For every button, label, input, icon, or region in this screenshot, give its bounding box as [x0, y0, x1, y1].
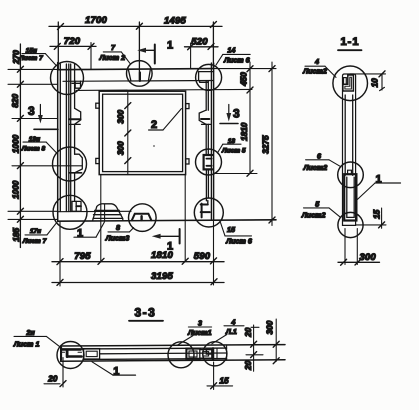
svg-text:3: 3	[28, 104, 35, 118]
svg-text:Лист 8: Лист 8	[21, 145, 46, 152]
svg-text:Лист2: Лист2	[302, 66, 327, 75]
left rib key C	[72, 201, 81, 211]
right rib inner line b	[207, 81, 209, 198]
left rib second line	[59, 64, 61, 212]
label 1 with leader	[92, 362, 136, 378]
plan bottom edge	[58, 220, 276, 221]
svg-text:15: 15	[227, 225, 236, 234]
section 3-3 title	[129, 306, 163, 321]
left rib key B	[69, 154, 82, 173]
detail circle mid-left	[53, 147, 87, 181]
label 8 sheet 3	[105, 223, 134, 243]
svg-text:300: 300	[116, 141, 126, 155]
svg-text:300: 300	[359, 252, 376, 263]
svg-text:Лист2: Лист2	[301, 211, 326, 220]
channel pair mid	[186, 349, 211, 359]
right dim 3275	[214, 62, 276, 226]
dim 520	[185, 36, 219, 69]
bar right end edge	[226, 345, 228, 360]
svg-text:1810: 1810	[239, 122, 249, 141]
bar bottom edge	[61, 360, 285, 361]
left rib inner line b	[68, 64, 70, 212]
svg-text:4: 4	[230, 317, 235, 326]
detail circle top-centre	[127, 61, 153, 87]
plan top bar bottom edge	[63, 80, 214, 83]
label 15n sheet 7	[18, 48, 56, 66]
extension line right edge	[212, 22, 214, 69]
label 4 sheet 2	[302, 57, 336, 77]
svg-text:Лист 7: Лист 7	[22, 238, 47, 245]
dim line 3195	[52, 271, 224, 285]
svg-text:520: 520	[191, 36, 208, 47]
svg-text:720: 720	[64, 36, 81, 47]
detail circle 1-1 bottom	[338, 212, 363, 237]
svg-text:Лист 5: Лист 5	[221, 148, 246, 155]
bottom edge extension right	[356, 224, 386, 226]
label 1 leader bottom-left	[74, 222, 105, 240]
detail circle top-right	[196, 64, 222, 90]
svg-text:Лист2: Лист2	[303, 163, 328, 172]
svg-text:3-3: 3-3	[134, 306, 156, 320]
right dim chain 20/20	[243, 325, 263, 371]
label 15 sheet 6	[221, 223, 253, 246]
opening centre dim line	[116, 91, 131, 174]
right rib key A	[199, 110, 211, 124]
label 14 sheet 6	[216, 45, 251, 65]
bar mid line	[100, 352, 227, 355]
label 4 sheet L1	[212, 317, 244, 343]
bar top edge	[61, 345, 285, 346]
section marker 3 left	[28, 104, 58, 130]
opening tab left lower	[96, 158, 99, 163]
svg-text:7: 7	[111, 43, 116, 52]
detail circle 3-3 right	[203, 342, 227, 366]
shear key hump left	[93, 204, 123, 221]
speck inside opening	[153, 145, 155, 147]
svg-text:20: 20	[243, 327, 253, 338]
dim 720	[50, 36, 96, 70]
svg-text:1495: 1495	[164, 15, 186, 26]
section 1-1 top hook profile	[343, 75, 354, 91]
svg-text:270: 270	[11, 50, 21, 65]
section 1-1 bottom edge	[343, 224, 356, 226]
left rib right edge	[74, 64, 76, 201]
opening inner rect	[103, 94, 183, 171]
svg-text:1700: 1700	[85, 15, 107, 26]
svg-text:300: 300	[265, 320, 275, 334]
detail circle 3-3 left	[57, 342, 84, 369]
svg-text:3: 3	[198, 319, 202, 328]
svg-text:Лист 6: Лист 6	[223, 55, 251, 64]
svg-text:Лист3: Лист3	[105, 234, 130, 243]
svg-text:2: 2	[151, 119, 157, 131]
detail circle 3-3 mid	[168, 342, 194, 368]
svg-text:795: 795	[74, 251, 91, 262]
bar lower inner line	[83, 358, 227, 361]
dim 10 top right	[350, 71, 386, 91]
detail circle 1-1 top	[333, 66, 368, 101]
svg-text:Лист 6: Лист 6	[225, 237, 253, 246]
extension opening edge down	[100, 175, 102, 262]
left rib outer left edge	[57, 63, 59, 222]
svg-text:450: 450	[239, 72, 249, 87]
svg-text:1: 1	[167, 40, 173, 52]
opening tab right lower	[186, 159, 189, 164]
svg-text:Лист 7: Лист 7	[18, 55, 43, 62]
dim 15 right	[371, 208, 384, 228]
channel item 1	[344, 170, 356, 220]
opening tab right upper	[186, 104, 189, 109]
plan top edge	[58, 69, 214, 70]
svg-text:Лист 2: Лист 2	[98, 53, 125, 62]
right dim chain 450/1810	[214, 62, 257, 176]
left rib key A	[69, 108, 81, 124]
label 5 sheet 2	[301, 200, 341, 220]
extension opening right edge down	[184, 175, 186, 262]
section 1-1 title	[338, 36, 362, 50]
svg-text:10: 10	[370, 78, 380, 88]
shear key hump in circle	[132, 214, 151, 220]
opening tab left upper	[96, 103, 99, 108]
right rib outer right edge	[213, 63, 215, 220]
label 2n sheet 1	[13, 328, 60, 349]
svg-text:Лист1: Лист1	[187, 328, 212, 337]
detail circle bottom-left	[53, 195, 87, 229]
left hook profile	[62, 347, 82, 360]
svg-text:1: 1	[376, 174, 382, 186]
svg-text:820: 820	[10, 93, 20, 107]
svg-text:3: 3	[233, 106, 240, 120]
section 1-1 outer left wall	[342, 76, 344, 225]
svg-text:3275: 3275	[260, 135, 270, 154]
section 1-1 top cap	[343, 74, 356, 76]
detail circle 1-1 middle	[338, 162, 364, 188]
extension right edge down	[213, 221, 215, 285]
label 6 sheet 2	[303, 152, 341, 172]
dim 20 left	[44, 358, 66, 388]
svg-text:1000: 1000	[11, 134, 21, 153]
svg-text:300: 300	[116, 109, 126, 123]
left rib short joint line	[70, 64, 72, 212]
plan flange inner line	[76, 89, 252, 90]
svg-text:590: 590	[194, 251, 211, 262]
dim 15 bottom	[207, 362, 233, 390]
detail circle bottom-right	[194, 198, 223, 227]
label 2 with leader	[149, 109, 182, 131]
svg-text:20: 20	[47, 373, 58, 383]
right rib inner line a	[205, 81, 207, 201]
svg-text:4: 4	[314, 57, 319, 66]
svg-text:2н: 2н	[25, 328, 35, 337]
svg-text:8: 8	[116, 223, 120, 232]
label 17n sheet 7	[22, 223, 57, 245]
section marker 1 bottom	[152, 229, 180, 253]
svg-text:5: 5	[315, 200, 320, 209]
top-centre joint wedge	[128, 70, 150, 81]
svg-text:20: 20	[243, 360, 253, 371]
bar second line	[81, 347, 226, 350]
dim line 1700/1495 top	[49, 15, 222, 30]
top-left joint step	[72, 81, 81, 88]
channel right	[206, 348, 217, 358]
label 18 sheet 5	[217, 138, 246, 155]
svg-text:15: 15	[371, 209, 381, 219]
dim line 795/1810/590	[52, 250, 224, 264]
label 1 with leader	[356, 174, 400, 201]
section 1-1 outer right wall	[355, 76, 357, 225]
bar left end edge	[60, 346, 62, 361]
opening outer rect	[99, 91, 185, 174]
svg-text:1: 1	[113, 366, 119, 378]
svg-text:1-1: 1-1	[341, 36, 360, 48]
top-right joint box	[199, 72, 214, 83]
svg-text:14: 14	[227, 45, 235, 54]
right rib key C channel	[201, 201, 210, 218]
svg-text:Лист 1: Лист 1	[13, 340, 40, 349]
plan bottom bar top edge	[58, 210, 131, 212]
left rib inner line a	[65, 64, 67, 212]
svg-text:1810: 1810	[151, 250, 173, 261]
extension lines left chain	[8, 69, 82, 219]
label 3 sheet 1	[178, 319, 212, 345]
right rib key B channel	[204, 155, 213, 169]
section 1-1 inner wall lines	[345, 95, 353, 175]
svg-text:3195: 3195	[151, 271, 173, 282]
extension to bottom dims left	[59, 221, 61, 286]
label 19n sheet 8	[21, 136, 57, 153]
svg-text:1000: 1000	[11, 180, 21, 199]
embedded plate left	[84, 349, 100, 359]
dim 300 bottom	[338, 229, 380, 266]
svg-text:15: 15	[219, 376, 229, 386]
section marker 1 top	[137, 40, 173, 64]
section marker 3 right	[220, 105, 240, 124]
detail circle mid-right	[196, 149, 222, 175]
extension line centre	[138, 22, 140, 81]
right dim 300	[265, 319, 280, 364]
extension line left edge	[57, 22, 59, 70]
svg-text:185: 185	[11, 227, 21, 241]
detail circle top-left	[51, 62, 84, 95]
svg-text:17н: 17н	[30, 228, 41, 235]
left dim chain line	[17, 44, 23, 248]
detail circle bottom-centre	[129, 204, 157, 232]
right rib second line	[210, 63, 212, 220]
label 7 sheet 2	[98, 43, 130, 64]
